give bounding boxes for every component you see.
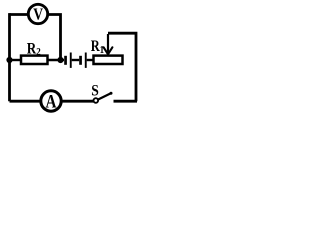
ammeter A <box>41 91 61 112</box>
rheostat R1 <box>91 38 123 64</box>
wire: R2 to battery <box>48 59 65 61</box>
svg-text:A: A <box>46 91 57 112</box>
node: voltmeter tap junction <box>57 57 63 63</box>
svg-text:V: V <box>33 5 43 24</box>
battery GB (two cells) <box>64 53 87 68</box>
wire: voltmeter right lead down to middle node <box>48 15 61 61</box>
wiper arrow of R1 <box>104 34 113 54</box>
svg-text:S: S <box>91 83 99 100</box>
voltmeter V <box>28 4 47 24</box>
cell2 short thick plate <box>79 56 82 65</box>
resistor R2 <box>21 40 48 64</box>
node: left middle junction <box>6 57 12 63</box>
wire between cells <box>72 59 80 61</box>
wire: switch fixed contact to right rail <box>114 100 138 103</box>
switch S <box>91 83 112 103</box>
cell2 tall thin plate <box>85 53 87 68</box>
wire: bottom left run <box>10 100 42 103</box>
cell1 short thick plate <box>64 56 67 65</box>
wire: middle row, left rail to R2 <box>10 59 21 61</box>
wire: left vertical rail <box>8 13 11 101</box>
cell1 tall thin plate <box>70 53 72 68</box>
wire: wiper up, across top-right, down right rail <box>108 33 136 101</box>
wire: top-left horizontal from voltmeter to left rail <box>10 13 29 16</box>
wire: battery to R1 <box>87 59 93 61</box>
wire: ammeter to switch <box>61 100 94 103</box>
